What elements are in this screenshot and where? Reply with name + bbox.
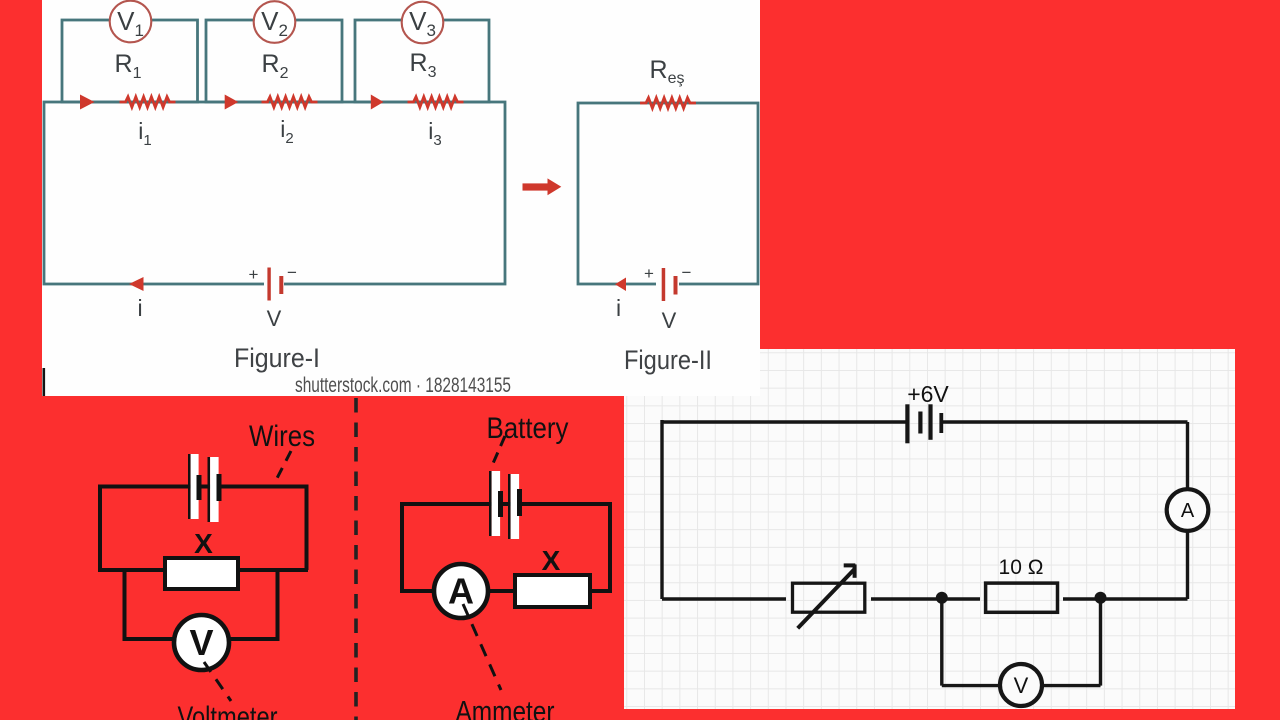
svg-text:X: X	[194, 528, 213, 559]
svg-text:i3: i3	[428, 118, 441, 149]
branch loop 3 wire	[355, 20, 489, 102]
black tick bottom left	[43, 368, 46, 396]
resistor R3 zigzag	[408, 97, 464, 107]
current arrow i3	[371, 95, 384, 110]
wire box to right	[588, 589, 612, 593]
wire rheostat to node A	[871, 597, 942, 600]
svg-text:Figure-II: Figure-II	[624, 345, 712, 375]
wire bottom left	[400, 589, 438, 593]
grid paper panel (bottom right)	[624, 349, 1235, 709]
svg-text:−: −	[682, 263, 692, 282]
svg-text:Voltmeter: Voltmeter	[178, 701, 278, 720]
svg-text:R1: R1	[115, 50, 142, 82]
wire right vertical	[608, 502, 612, 591]
Figure-I outer loop wire	[44, 102, 505, 284]
svg-text:shutterstock.com · 1828143155: shutterstock.com · 1828143155	[295, 374, 511, 396]
grid panel circuit	[624, 349, 1235, 709]
voltmeter V1	[110, 1, 152, 43]
wire voltmeter branch bottom right	[1042, 684, 1101, 687]
branch loop 2 wire	[206, 20, 342, 102]
battery V short plate	[279, 276, 283, 294]
wire left vertical	[98, 485, 102, 571]
ammeter circle	[434, 564, 488, 618]
svg-text:Ammeter: Ammeter	[456, 696, 555, 720]
wire top right segment	[941, 420, 1188, 423]
voltmeter circle	[174, 615, 229, 670]
wire right vertical upper	[1186, 422, 1189, 489]
svg-text:A: A	[1181, 500, 1195, 522]
rheostat arrow	[798, 564, 856, 628]
svg-text:Wires: Wires	[249, 420, 315, 453]
Figure-II loop wire	[578, 103, 758, 284]
dashed pointer wires	[274, 451, 291, 484]
white shutterstock panel	[42, 0, 760, 396]
resistor R2 zigzag	[262, 97, 318, 107]
svg-text:−: −	[287, 263, 297, 282]
svg-text:+: +	[644, 264, 654, 283]
wire node A to resistor	[942, 597, 980, 600]
wire bottom right	[236, 568, 308, 572]
svg-text:i1: i1	[138, 118, 151, 149]
svg-text:i: i	[137, 295, 142, 321]
resistor R1 10 ohm box	[986, 583, 1058, 612]
svg-text:R2: R2	[262, 50, 289, 82]
resistor X box (right)	[515, 575, 590, 607]
battery (right diagram)	[489, 471, 522, 539]
svg-text:+: +	[249, 265, 259, 284]
battery (left diagram)	[188, 454, 222, 522]
wire top left segment	[662, 420, 907, 423]
node B junction dot	[1095, 592, 1107, 604]
svg-text:R3: R3	[410, 49, 437, 81]
current arrow i (bottom)	[129, 277, 144, 291]
wire voltmeter branch right vertical	[276, 570, 280, 639]
branch loop 1 wire	[62, 20, 198, 102]
wire voltmeter branch bottom left	[942, 684, 1000, 687]
wire voltmeter branch left vertical	[940, 599, 943, 686]
battery B1 +6V plates	[905, 404, 943, 443]
battery V2 short plate	[674, 276, 678, 295]
svg-text:Figure-I: Figure-I	[234, 343, 320, 373]
current arrow i (fig II)	[615, 278, 626, 292]
battery V2 gap cover	[656, 281, 679, 288]
wire left vertical	[400, 502, 404, 591]
svg-text:i: i	[616, 295, 621, 321]
resistor R1 zigzag	[120, 97, 176, 107]
wire voltmeter branch right vertical	[1099, 599, 1102, 686]
battery V long plate	[267, 268, 270, 301]
current arrow i1	[80, 95, 95, 110]
dashed pointer voltmeter	[204, 662, 231, 701]
svg-text:V: V	[267, 306, 282, 331]
voltmeter V3	[402, 2, 444, 44]
wire bottom left	[98, 568, 167, 572]
wire right vertical lower	[1186, 531, 1189, 599]
big red arrow	[523, 183, 549, 190]
bottom diagrams on red	[0, 396, 624, 720]
voltmeter V	[1000, 664, 1042, 706]
wire top	[100, 485, 306, 489]
dashed divider	[354, 398, 358, 720]
wire circle to box	[486, 589, 517, 593]
wire voltmeter branch bottom right	[224, 637, 280, 641]
node A junction dot	[936, 592, 948, 604]
wire node B to right vertical	[1101, 597, 1188, 600]
svg-text:Reş: Reş	[650, 56, 685, 87]
svg-text:V: V	[662, 308, 677, 333]
svg-text:V: V	[1014, 673, 1029, 698]
rheostat RV1 box	[793, 583, 865, 612]
wire top	[402, 502, 610, 506]
wire right vertical	[305, 485, 309, 571]
wire resistor to node B	[1063, 597, 1101, 600]
wire left vertical	[660, 420, 663, 599]
wire bottom left to rheostat	[662, 597, 786, 600]
svg-text:10 Ω: 10 Ω	[999, 556, 1044, 579]
svg-text:V: V	[189, 622, 213, 663]
svg-text:A: A	[448, 571, 474, 612]
svg-text:+6V: +6V	[907, 381, 949, 407]
svg-text:i2: i2	[280, 116, 293, 147]
wire voltmeter branch bottom left	[123, 637, 181, 641]
battery V gap cover	[264, 281, 284, 288]
dashed pointer battery	[491, 436, 505, 468]
svg-text:Battery: Battery	[487, 412, 569, 445]
resistor X box (left)	[165, 558, 238, 589]
voltmeter V2	[254, 1, 296, 43]
wire voltmeter branch left vertical	[123, 570, 127, 639]
battery V2 long plate	[662, 268, 666, 301]
dashed pointer ammeter	[463, 604, 501, 690]
current arrow i2	[225, 95, 239, 110]
resistor Res zigzag	[640, 98, 696, 108]
svg-text:X: X	[542, 545, 561, 576]
ammeter A	[1167, 489, 1209, 531]
